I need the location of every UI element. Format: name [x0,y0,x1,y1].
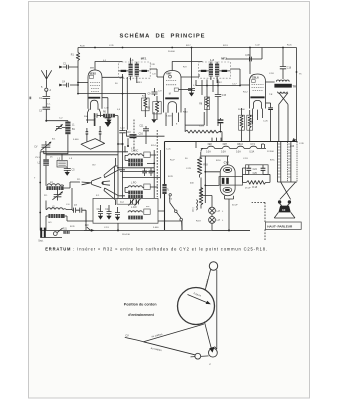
svg-text:R.19: R.19 [196,221,201,223]
svg-text:20.000: 20.000 [238,109,245,111]
coil L2 [38,151,49,171]
capacitor C2 with grid arrow [59,64,78,70]
svg-text:Sect.: Sect. [38,239,44,242]
svg-text:R.20: R.20 [80,45,85,47]
wire: coil L1 bottom to CV1 [44,134,68,154]
node mains junction [117,223,119,231]
svg-text:TR: TR [293,85,297,89]
svg-text:HAUT- PARLEUR: HAUT- PARLEUR [267,224,293,228]
wire: CY2 side taps [204,156,220,203]
node antenna junction [45,120,47,122]
wire: MF2 secondary to T3 grid [231,69,250,85]
svg-text:(?): (?) [166,190,169,192]
svg-text:R.10: R.10 [183,112,188,114]
wire: T3 pins [251,109,262,125]
resistor R18 zigzag [243,168,271,189]
svg-text:C18: C18 [287,67,292,69]
wire: antenna to coil L1 [46,120,68,123]
resistor R30 on left edge [162,184,166,194]
svg-text:0,3A: 0,3A [249,151,254,154]
wire: B+ feed [290,138,297,148]
svg-text:C11: C11 [139,125,144,127]
tube T2 cathode bar [165,97,179,99]
wire: gang column [86,116,123,199]
svg-text:R.13: R.13 [223,45,228,47]
tube T1 heater arch [88,100,101,117]
coil L1 antenna primary [65,122,75,135]
wire: MF1 secondary to T2 grid [150,69,164,77]
electrolytic capacitors C24 C25 [243,165,269,175]
svg-text:R.21: R.21 [287,45,292,47]
ground: screen bypass near T2 [188,48,195,97]
svg-text:C.22: C.22 [255,45,260,47]
wire: T1 plate to MF1 [95,62,123,71]
wire: MF2 lower stubs [196,80,213,95]
voltage selector arrow [84,225,95,232]
svg-text:L.P: L.P [217,220,221,222]
wire: spring cord from top pulley to drum [205,270,210,290]
oscillator block box [93,198,158,223]
svg-text:C.13: C.13 [104,227,109,229]
mains bus bottom [40,230,250,237]
svg-text:R.12: R.12 [243,92,248,94]
heater chain with resistor humps [201,144,264,154]
small idler pulley [195,353,201,359]
wire: gang mechanical link dashed [133,120,135,153]
capacitor C8 under T1 [102,98,111,121]
wire: AVC bus down [77,66,79,94]
arrow 2 tours inside drum [188,291,211,304]
svg-text:osc.: osc. [146,206,150,208]
svg-text:C.10: C.10 [120,127,125,129]
svg-text:R31: R31 [63,229,68,231]
tube T1 cathode bar [88,97,100,99]
svg-text:MF.2: MF.2 [221,56,227,60]
svg-text:CY2: CY2 [224,160,230,164]
wire: oscillator rails [40,152,128,155]
capacitor C3 antenna series [39,107,50,121]
oscillator coil row 2 [125,182,158,194]
capacitor C18 tone [280,48,292,80]
tube T2 heater arch [168,102,177,113]
capacitor C33 [217,118,223,142]
coil L4 PO antenna [46,171,80,190]
capacitor CT1 trimmer [55,124,65,131]
wire: dashed gang link [156,130,158,197]
switch S1 [166,190,183,231]
svg-text:6E8: 6E8 [208,144,213,146]
svg-text:R.18: R.18 [252,187,258,189]
oscillator coil row 3 [128,207,150,219]
lamp ticks on top rail [212,138,221,142]
svg-text:C25: C25 [253,173,258,175]
capacitor C9 [148,88,158,96]
svg-text:d'entraînement: d'entraînement [128,313,154,317]
svg-text:MF.1: MF.1 [141,56,147,60]
svg-text:C.26: C.26 [299,143,304,145]
wire: detector bus [196,85,241,87]
svg-text:R.16: R.16 [216,160,221,162]
svg-text:MF.1: MF.1 [137,82,143,84]
lamp L1 dial [209,207,221,214]
svg-text:CV: CV [34,147,38,149]
capacitor C20 screen rail [245,55,251,61]
oscillator coil row 1 [125,150,156,162]
svg-text:L.1: L.1 [130,58,134,62]
svg-text:L.P: L.P [217,211,221,213]
svg-text:M: M [169,93,171,95]
wire: T1 grid [77,82,88,84]
svg-text:C10: C10 [126,132,131,134]
svg-text:C12: C12 [97,209,102,211]
svg-text:R.29: R.29 [168,176,173,178]
svg-text:2.000: 2.000 [166,116,172,118]
box: AVC network [185,108,204,125]
antenna [41,70,51,92]
field coil and output choke windings [277,142,297,183]
svg-text:R.17: R.17 [186,45,191,47]
svg-text:ERRATUM : Insérer « R32 » ent: ERRATUM : Insérer « R32 » entre les cath… [45,247,268,252]
svg-text:C.15: C.15 [199,125,204,127]
resistor R4 box [142,93,150,117]
svg-text:0,3A: 0,3A [206,151,211,154]
svg-text:C.31: C.31 [109,45,114,47]
svg-text:C13: C13 [105,209,110,211]
wire: T2 plate stub [181,74,199,77]
resistor R11 long zigzag [185,125,222,133]
tube T3 output envelope [250,74,266,109]
svg-text:6M7: 6M7 [166,72,172,76]
svg-text:50 uF: 50 uF [232,205,238,207]
capacitor C11 [139,125,149,144]
svg-text:C24: C24 [253,169,258,171]
svg-text:R.27: R.27 [170,159,175,161]
capacitor C15 [215,80,227,127]
label au cadran upper [151,333,163,339]
svg-text:R28: R28 [203,165,208,167]
wire: T3 plate to TR [250,48,275,83]
svg-text:PO: PO [77,179,80,181]
resistor R12 vertical box [239,108,245,142]
tube T3 cathode bar [250,96,264,98]
wire: screen rail [226,48,262,60]
capacitor C4 with grid arrow [59,81,78,87]
ground: pad gnd [151,112,156,123]
label c [209,362,211,366]
wire: cord drum bottom to drive pulley [204,322,211,349]
capacitor C1 antenna series [39,91,50,107]
svg-text:L.GO: L.GO [131,207,137,209]
svg-text:C15: C15 [222,95,227,97]
label au cadran lower [150,347,162,352]
potentiometer P1 with coil [193,178,203,213]
wire: power section left edge [164,142,166,231]
svg-text:12.500: 12.500 [267,151,274,153]
tube T3 heater arch [253,100,261,108]
resistor R8 vertical [199,80,209,127]
oscillator coil box L3 [57,154,67,167]
svg-text:C.25: C.25 [263,120,268,122]
wire: lamps feed [201,188,212,231]
wire: AVC line through T1 [77,93,145,95]
mains plug pins [38,228,46,243]
capacitor C23 cathode [266,103,274,142]
band switch wafer [82,158,125,205]
top pulley [209,262,217,270]
svg-text:2 H: 2 H [131,148,135,150]
svg-text:20.000: 20.000 [168,51,175,53]
wire: cord drum lower-left tangent to CV vertex [144,324,204,342]
svg-text:SCHÉMA DE PRINCIPE: SCHÉMA DE PRINCIPE [120,32,206,40]
resistor R5 [147,96,161,120]
svg-text:0,3A: 0,3A [236,151,241,154]
erratum text [45,247,268,252]
resistor R28 vertical [197,152,208,178]
svg-text:C.32: C.32 [104,107,109,109]
svg-text:C.OSC: C.OSC [131,150,139,152]
coil row 2 second winding [128,195,143,198]
tube T1 converter envelope [88,70,102,109]
svg-text:5.000: 5.000 [73,139,79,141]
svg-text:6E8S: 6E8S [90,71,97,75]
svg-text:10: 10 [282,208,286,212]
svg-text:C.21: C.21 [166,149,171,151]
wire: left boundary [39,152,41,231]
svg-text:PO: PO [44,195,47,197]
svg-text:EXC.: EXC. [270,159,275,161]
wire: T1 screen feed [102,76,123,78]
capacitor pair C29 [142,168,153,176]
wire: power section top rail (thick) [165,141,298,143]
resistor R31 mains [63,229,70,234]
tube T2 IF amp envelope [164,71,182,113]
svg-text:CV: CV [125,334,129,338]
ground: mid gnd [105,121,112,127]
svg-text:25 uF: 25 uF [245,188,251,190]
label ressort [204,279,210,288]
svg-text:GO: GO [92,164,96,166]
label Position du cordon d'entraînement [124,303,157,317]
coil row 1 second winding [128,163,143,166]
coil L5 GO antenna [46,201,93,231]
svg-text:5.000: 5.000 [153,227,159,229]
svg-text:C.17: C.17 [232,84,237,86]
tuning gang frame [81,126,105,149]
svg-text:C.28: C.28 [150,64,155,66]
svg-text:C.18: C.18 [269,73,274,75]
value labels scatter [34,45,304,236]
variable capacitor CV1 [34,141,51,151]
wire: MF1 bottom drop [126,77,128,130]
svg-text:MF.2: MF.2 [217,82,223,84]
svg-text:CBL6: CBL6 [237,144,243,146]
transformer TR output [274,80,296,93]
svg-text:CY2: CY2 [250,144,255,146]
svg-text:C.19: C.19 [243,158,248,160]
resistor R1 [71,48,80,67]
wire: T1 below [88,113,95,126]
capacitor C7 pair [72,205,86,222]
wire: short lead to CV [125,337,144,341]
switch S2 mains [53,228,62,235]
node J1 [122,143,124,198]
lamp L2 dial [209,217,221,224]
svg-text:CBL6: CBL6 [252,76,259,80]
svg-text:0,05: 0,05 [245,55,250,57]
svg-text:6M7: 6M7 [223,144,228,146]
drive pulley with tension spring [209,347,218,358]
svg-text:L.PO: L.PO [131,182,136,184]
wire: dashed HP boundary [252,202,265,240]
svg-text:GO: GO [48,222,52,224]
wire: T2 pins down [166,113,179,127]
wire: misc feed lines [72,142,266,231]
IF transformer MF2 [199,56,231,83]
wire: oscillator links [114,146,160,198]
svg-text:Position du cordon: Position du cordon [124,303,157,307]
capacitor C30 on bus [126,130,164,147]
svg-text:110-130: 110-130 [122,234,131,236]
wire: power return links [158,199,250,231]
wire: speaker leads lower twisted [280,182,296,199]
svg-text:CV.1: CV.1 [35,157,40,159]
svg-text:R.14: R.14 [151,145,156,147]
wire: T2 plate to MF2 [172,62,202,71]
svg-text:0,3A: 0,3A [221,151,226,154]
label box HAUT-PARLEUR [265,222,301,229]
svg-text:R.31: R.31 [70,226,75,228]
wire: right cord top pulley down to bottom pulley [216,270,218,349]
variable capacitor CV2 [52,190,62,201]
title SCHÉMA DE PRINCIPE [120,32,206,40]
capacitor C10 on line [119,74,131,144]
wire: HT top rail [78,47,297,49]
speaker terminals [278,200,291,205]
svg-text:C16: C16 [139,134,144,136]
wire: T2 screen to bypass [179,89,193,91]
wire: cord vertex down to small pulley [144,342,195,355]
trimmer pair under row2 [128,199,140,206]
drum (big circle) [178,288,215,325]
wire: cord through idler to drive pulley [191,356,209,357]
svg-text:C.23: C.23 [186,168,191,170]
wire: right HT bus [296,48,298,142]
capacitor bank with grounds [97,205,121,221]
resistor R6 with ground [95,111,118,123]
wire: speaker leads twisted [279,93,288,142]
capacitor C5 to ground [64,167,75,176]
tube CY2 rectifier [219,156,243,199]
svg-text:T.R: T.R [269,94,273,96]
svg-text:L.2: L.2 [210,58,214,62]
IF transformer MF1 [118,56,150,83]
resistor R13 vertical box [247,110,253,142]
speaker magnet [274,206,295,218]
label CV [125,334,129,338]
